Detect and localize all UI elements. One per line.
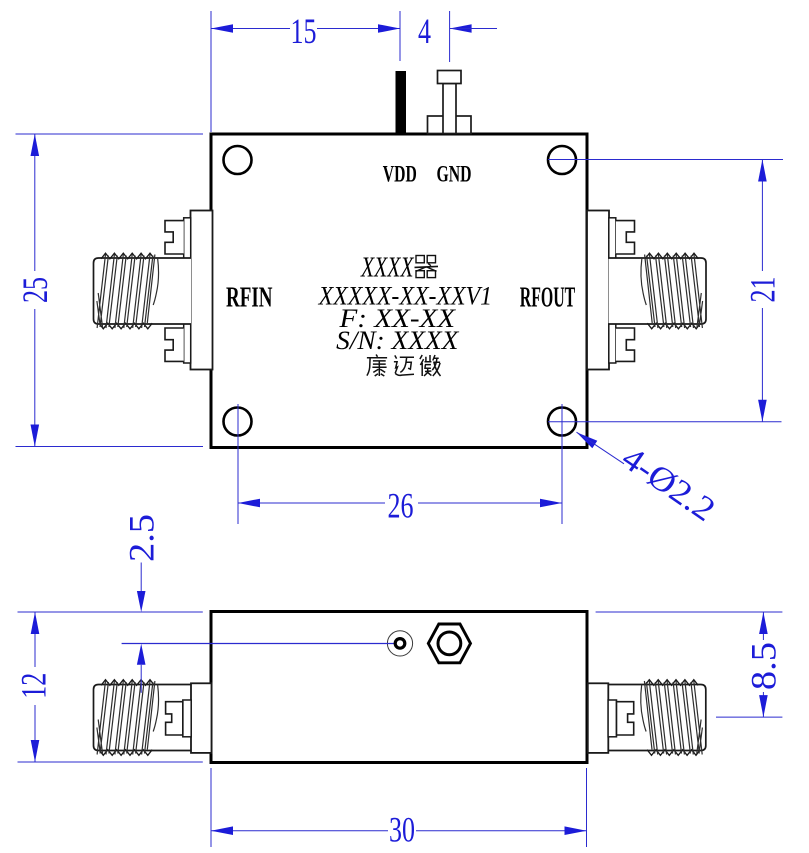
side-view connector inner plate (183, 700, 191, 737)
RFOUT connector (top view, mirrored) (587, 211, 706, 370)
top view enclosure body (211, 134, 587, 448)
RFIN connector threaded barrel (94, 253, 192, 329)
dimension 2.5 (121, 514, 161, 693)
svg-text:GND: GND (437, 162, 472, 188)
svg-text:25: 25 (15, 277, 55, 303)
RFIN connector inner plate (609, 218, 616, 363)
corner hole top-left (224, 146, 252, 174)
RFIN connector inner plate (184, 218, 191, 363)
side-view connector nut cross-section with notch (617, 702, 634, 735)
product text line 1: Chinese char 器 (416, 256, 424, 263)
dimension 21 (right) (548, 160, 783, 422)
product text line 5: 微 (420, 355, 441, 376)
svg-text:4: 4 (418, 11, 431, 51)
svg-text:S/N: XXXX: S/N: XXXX (336, 326, 459, 355)
svg-text:XXXX: XXXX (360, 252, 414, 284)
dimension 30 (211, 768, 587, 850)
svg-text:26: 26 (388, 486, 414, 526)
dimension 15 (top) (211, 11, 400, 132)
dimension 4 (top) (418, 11, 497, 62)
side-view connector nut cross-section with notch (166, 702, 183, 735)
GND feedthrough base (428, 116, 472, 134)
RFIN connector flange plate (top view) (587, 211, 609, 370)
small pin hole outer circle (387, 631, 412, 656)
side-view connector barrel (bottom view left) (608, 680, 706, 756)
product text line 5: 康 (367, 355, 387, 377)
corner hole top-right (548, 146, 576, 174)
RFIN connector lower nut with notch (165, 328, 184, 361)
svg-text:RFOUT: RFOUT (520, 283, 576, 314)
product text line 5: 迈 (394, 355, 414, 375)
pin leader line to small hole (122, 643, 396, 645)
svg-text:12: 12 (14, 673, 54, 699)
svg-text:30: 30 (389, 810, 415, 850)
RFIN connector lower nut with notch (616, 328, 635, 361)
svg-text:21: 21 (743, 277, 783, 303)
dimension 8.5 (596, 612, 784, 717)
hex nut circle (438, 632, 461, 655)
bottom view enclosure body (211, 612, 587, 763)
svg-text:15: 15 (291, 11, 317, 51)
bottom view right connector (mirrored) (588, 680, 706, 756)
svg-text:8.5: 8.5 (744, 642, 784, 690)
side-view connector barrel (bottom view left) (94, 680, 192, 756)
dimension 26 (bottom of top view) (238, 404, 562, 526)
hex nut outline (428, 624, 470, 663)
leader 4-dia-2.2 (577, 432, 722, 529)
svg-text:2.5: 2.5 (121, 514, 161, 562)
small pin hole inner circle (395, 639, 405, 649)
RFIN connector threaded barrel (609, 253, 707, 329)
side-view connector flange plate (191, 683, 212, 753)
RFIN connector flange plate (top view) (191, 211, 213, 370)
GND feedthrough cap (438, 71, 462, 84)
dimension 12 (14, 612, 203, 762)
side-view connector flange plate (588, 683, 609, 753)
side-view connector inner plate (608, 700, 616, 737)
svg-text:VDD: VDD (383, 162, 417, 188)
RFIN connector upper nut with notch (616, 221, 635, 254)
dimension 25 (left) (15, 134, 203, 447)
RFIN connector upper nut with notch (165, 221, 184, 254)
GND feedthrough stem (443, 84, 456, 134)
corner hole bottom-right (548, 408, 576, 436)
svg-text:RFIN: RFIN (226, 283, 273, 314)
corner hole bottom-left (224, 408, 252, 436)
VDD pin (black stub) (396, 71, 407, 133)
